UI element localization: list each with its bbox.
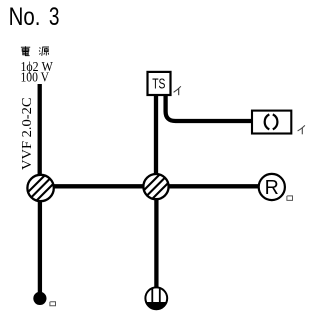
label kanji 源 (source) — [39, 47, 49, 56]
svg-text:TS: TS — [152, 76, 165, 92]
svg-text:VVF 2.0-2C: VVF 2.0-2C — [20, 98, 35, 171]
svg-text:100 V: 100 V — [21, 71, 50, 86]
label ロ (switch circuit) — [50, 302, 56, 306]
svg-text:3: 3 — [49, 3, 60, 31]
svg-text:No.: No. — [9, 3, 41, 31]
paren ( — [265, 114, 270, 129]
wire TS to receptacle box (with rounded corner) — [166, 95, 252, 121]
ceiling light (circle with bars and filled base) — [144, 287, 169, 312]
junction box B (hatched circle) — [143, 173, 170, 200]
lamp receptacle R — [259, 174, 285, 200]
wire bus right (junction B to lamp R) — [156, 184, 259, 188]
svg-text:R: R — [265, 177, 279, 199]
switch dot (filled circle) — [33, 292, 46, 305]
wire power feed — [38, 84, 42, 188]
junction box A (hatched circle) — [27, 175, 54, 202]
wire TS down to junction B — [154, 95, 158, 186]
timer switch TS box — [148, 72, 171, 95]
label kanji 電 (power) — [21, 46, 30, 55]
label イ (receptacle circuit) — [298, 125, 305, 134]
wire junction B down to ceiling light — [154, 187, 158, 288]
paren ) — [273, 114, 278, 129]
label イ (TS circuit) — [174, 86, 181, 95]
wire bus left (junction A to junction B) — [40, 184, 156, 188]
label ロ (lamp R circuit) — [287, 196, 293, 201]
wire junction A down to switch dot — [38, 188, 42, 294]
receptacle box with ( ) — [252, 111, 291, 134]
